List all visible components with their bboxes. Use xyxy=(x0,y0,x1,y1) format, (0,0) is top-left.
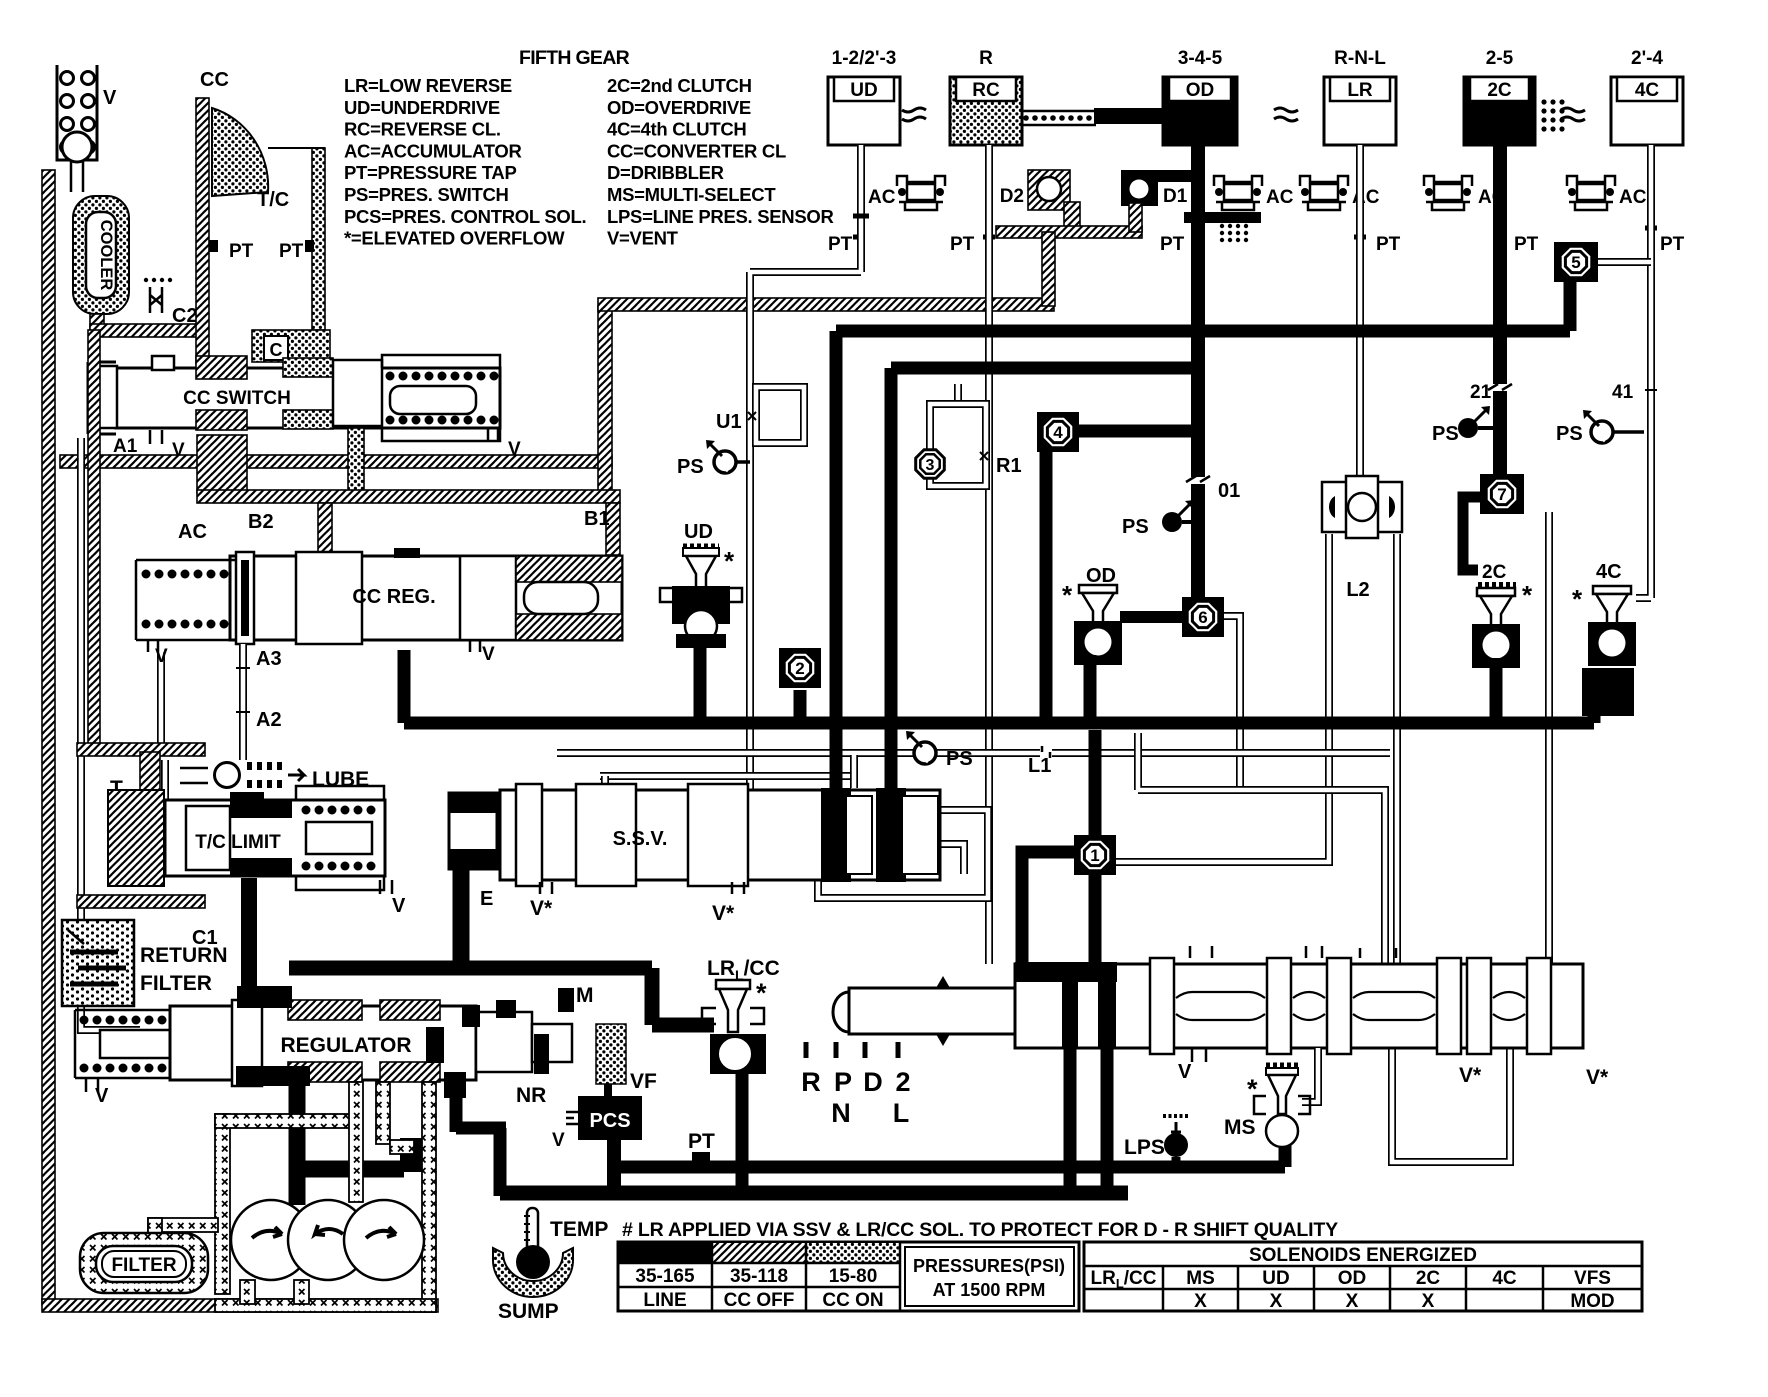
svg-text:CC=CONVERTER CL: CC=CONVERTER CL xyxy=(607,140,786,161)
dribbler D2 xyxy=(1028,170,1070,210)
VF stipple column xyxy=(596,1024,626,1084)
svg-text:2C=2nd CLUTCH: 2C=2nd CLUTCH xyxy=(607,75,752,96)
svg-text:V: V xyxy=(482,644,495,665)
svg-text:15-80: 15-80 xyxy=(829,1266,878,1287)
svg-text:R: R xyxy=(801,1067,821,1097)
sensor LPS xyxy=(1124,1116,1189,1167)
wire left A1 line xyxy=(81,438,140,1030)
svg-text:OD: OD xyxy=(1186,80,1215,101)
svg-text:*=ELEVATED OVERFLOW: *=ELEVATED OVERFLOW xyxy=(344,228,565,249)
svg-text:FILTER: FILTER xyxy=(111,1255,176,1276)
junction 2 xyxy=(779,648,821,688)
solenoids energized table xyxy=(1084,1242,1642,1312)
accumulator AC (OD) xyxy=(1214,176,1262,210)
svg-text:21: 21 xyxy=(1470,382,1492,403)
valve REGULATOR xyxy=(75,986,574,1098)
PT tap ticks xyxy=(853,228,1657,237)
regulator to pump black feed xyxy=(297,1080,404,1205)
pressure switch PS (U1) xyxy=(734,460,750,464)
wire E black xyxy=(453,860,470,966)
svg-text:X: X xyxy=(1194,1291,1207,1312)
relief tap into sump channel xyxy=(400,1138,426,1172)
svg-text:V: V xyxy=(103,87,117,109)
svg-text:4C=4th CLUTCH: 4C=4th CLUTCH xyxy=(607,119,746,140)
svg-text:6: 6 xyxy=(1198,608,1207,627)
filter badge xyxy=(80,1233,208,1293)
return filter xyxy=(62,920,134,1006)
svg-text:E: E xyxy=(480,888,493,910)
solenoid MS (multi-select) xyxy=(1224,1066,1310,1147)
wire manual valve lower-right loop xyxy=(1392,1048,1510,1162)
vent symbol top left xyxy=(57,65,97,192)
junction 3 and R1 tap xyxy=(954,384,962,404)
accumulator AC (2C) xyxy=(1424,176,1472,210)
svg-text:LRL/CC: LRL/CC xyxy=(1090,1268,1156,1291)
trunk T2 (main lower) xyxy=(404,650,1594,723)
pressure legend table xyxy=(618,1242,1079,1311)
trunk T1b xyxy=(891,368,1198,796)
wire junction6 output down xyxy=(1224,616,1240,790)
svg-text:U1: U1 xyxy=(716,411,742,433)
svg-text:4C: 4C xyxy=(1596,561,1622,583)
lever ticks R P D 2 N L xyxy=(806,1042,898,1058)
svg-text:MS=MULTI-SELECT: MS=MULTI-SELECT xyxy=(607,184,776,205)
solenoid PCS xyxy=(578,1096,642,1140)
accumulator AC (UD) xyxy=(897,176,945,210)
dribbler D1 xyxy=(1121,170,1194,182)
regulator NR black details xyxy=(426,1027,444,1063)
wire lower cross line to valve xyxy=(1138,733,1385,964)
sump pickup channels (x-hatch) xyxy=(215,1114,230,1294)
check valve LUBE xyxy=(180,762,369,791)
svg-text:CC REG.: CC REG. xyxy=(352,586,435,608)
svg-text:A2: A2 xyxy=(256,709,282,731)
svg-text:OD=OVERDRIVE: OD=OVERDRIVE xyxy=(607,97,751,118)
svg-text:AT 1500 RPM: AT 1500 RPM xyxy=(933,1280,1046,1300)
manual valve spool waists xyxy=(1176,992,1265,1020)
svg-text:*: * xyxy=(1247,1074,1258,1104)
wire 4C supply down (thin) xyxy=(1636,145,1651,598)
trunk T3 (regulator top) xyxy=(289,968,714,1025)
cooler xyxy=(73,196,129,314)
black feed line into OD box xyxy=(1094,108,1164,124)
svg-text:PT: PT xyxy=(1160,234,1185,255)
hatched drop from D2 xyxy=(1064,202,1080,230)
hatched bottom trunk xyxy=(42,1299,438,1312)
wire MS right port to valve xyxy=(1302,1048,1318,1102)
hatched left wall inner xyxy=(88,330,100,754)
manual valve bottom ports black to T5 xyxy=(1070,1048,1107,1193)
hatched B-path below CC SWITCH xyxy=(197,435,247,493)
svg-text:PT=PRESSURE TAP: PT=PRESSURE TAP xyxy=(344,162,517,183)
svg-text:V*: V* xyxy=(712,902,735,925)
svg-text:PS: PS xyxy=(1122,516,1149,538)
pressure switch PS on L1 xyxy=(906,731,936,764)
svg-text:T/C: T/C xyxy=(257,189,289,211)
svg-text:LINE: LINE xyxy=(643,1290,686,1311)
wire RC supply down (thin) xyxy=(985,145,993,964)
svg-text:5: 5 xyxy=(1571,253,1580,272)
junction 1 xyxy=(1089,730,1102,836)
hatched trunk H1 (to D2) xyxy=(598,298,1054,311)
svg-text:PT: PT xyxy=(950,234,975,255)
node C into CC switch (stippled port) xyxy=(252,330,330,362)
svg-text:OD: OD xyxy=(1338,1268,1367,1289)
svg-text:C: C xyxy=(270,340,283,360)
T loop (hatched) xyxy=(77,743,205,756)
trunk T1 (OD/2C upper) xyxy=(836,281,1570,796)
tap break 21 on 2C line xyxy=(1490,384,1510,391)
sump bowl xyxy=(493,1248,573,1297)
svg-text:CC OFF: CC OFF xyxy=(724,1290,795,1311)
svg-text:FILTER: FILTER xyxy=(140,972,212,995)
svg-text:PS: PS xyxy=(1556,423,1583,445)
svg-text:V*: V* xyxy=(1586,1066,1609,1089)
svg-text:V*: V* xyxy=(530,897,553,920)
svg-text:2: 2 xyxy=(895,1067,910,1097)
wire SSV pilot line B xyxy=(600,772,858,780)
svg-text:AC: AC xyxy=(1619,187,1647,208)
clutch box RC xyxy=(950,48,1022,145)
svg-text:PT: PT xyxy=(828,234,853,255)
hatched vertical V1 xyxy=(598,306,612,498)
svg-text:4: 4 xyxy=(1053,423,1063,442)
svg-text:*: * xyxy=(1062,580,1073,610)
wire L1 long thin line xyxy=(557,749,1390,757)
svg-text:1-2/2'-3: 1-2/2'-3 xyxy=(832,48,897,69)
svg-text:4C: 4C xyxy=(1635,80,1660,101)
svg-text:R: R xyxy=(979,48,993,69)
valve S.S.V. xyxy=(449,784,940,886)
hatched left wall outer xyxy=(42,170,55,1305)
wire L2 left line down to SSV area xyxy=(1106,534,1329,862)
svg-text:2'-4: 2'-4 xyxy=(1631,48,1663,69)
svg-text:PCS: PCS xyxy=(589,1110,630,1132)
junction 7 xyxy=(1480,474,1524,514)
T/C housing left wall (hatched) xyxy=(196,98,209,364)
svg-text:AC=ACCUMULATOR: AC=ACCUMULATOR xyxy=(344,140,522,161)
junction 4 xyxy=(1037,412,1079,452)
svg-text:L: L xyxy=(893,1098,910,1128)
hatched trunk H2 (A-line) xyxy=(60,455,612,468)
svg-text:D2: D2 xyxy=(1000,186,1024,207)
junction 6 xyxy=(1182,597,1224,637)
svg-text:N: N xyxy=(831,1098,851,1128)
clutch box OD xyxy=(1163,48,1237,145)
tap break 01 on OD line xyxy=(1189,477,1207,484)
vent connector right of UD box xyxy=(902,108,926,112)
wire SSV loops to manual valve xyxy=(818,810,988,898)
svg-text:D=DRIBBLER: D=DRIBBLER xyxy=(607,162,724,183)
hatched link D2 path to D1 xyxy=(996,226,1142,238)
svg-text:2: 2 xyxy=(795,659,804,678)
trunk T5 (bottom) xyxy=(500,1186,1128,1201)
svg-text:X: X xyxy=(1270,1291,1283,1312)
svg-text:01: 01 xyxy=(1218,480,1240,502)
svg-text:B1: B1 xyxy=(584,508,610,530)
svg-text:PT: PT xyxy=(279,241,304,262)
vent tick A1/V under CC SWITCH xyxy=(150,430,162,444)
svg-text:RC=REVERSE CL.: RC=REVERSE CL. xyxy=(344,119,501,140)
svg-text:PS: PS xyxy=(1432,423,1459,445)
svg-text:R1: R1 xyxy=(996,455,1022,477)
svg-text:FIFTH GEAR: FIFTH GEAR xyxy=(519,47,630,69)
svg-text:LR=LOW REVERSE: LR=LOW REVERSE xyxy=(344,75,512,96)
svg-text:*: * xyxy=(724,546,735,576)
svg-text:4C: 4C xyxy=(1492,1268,1517,1289)
manual valve top ports xyxy=(1190,946,1396,958)
valve L2 xyxy=(1322,476,1402,538)
wire UD sol stem xyxy=(694,646,707,723)
svg-text:L1: L1 xyxy=(1028,755,1051,777)
wire junction7 output down xyxy=(1545,512,1553,964)
svg-text:PRESSURES(PSI): PRESSURES(PSI) xyxy=(913,1256,1065,1276)
svg-text:D1: D1 xyxy=(1163,186,1188,207)
svg-text:# LR APPLIED VIA SSV & LR/CC S: # LR APPLIED VIA SSV & LR/CC SOL. TO PRO… xyxy=(622,1219,1338,1241)
svg-text:1: 1 xyxy=(1090,846,1099,865)
wire AC(OD) to OD supply xyxy=(1184,212,1261,223)
valve CC SWITCH xyxy=(88,355,500,441)
T/C stippled dome xyxy=(212,108,268,196)
trunk T4 (PCS line) xyxy=(613,1140,1285,1167)
svg-text:2C: 2C xyxy=(1482,562,1507,583)
junction 1 to valve black feed xyxy=(1022,852,1095,965)
svg-text:COOLER: COOLER xyxy=(97,220,115,291)
svg-text:MS: MS xyxy=(1224,1116,1256,1139)
svg-text:UD: UD xyxy=(684,521,713,543)
svg-text:V: V xyxy=(392,895,406,917)
svg-text:UD: UD xyxy=(1262,1268,1289,1289)
svg-text:3: 3 xyxy=(926,457,935,474)
valve CC REG xyxy=(136,548,622,644)
svg-text:OD: OD xyxy=(1086,565,1116,587)
accumulator AC (LR) xyxy=(1300,176,1348,210)
svg-text:PT: PT xyxy=(1514,234,1539,255)
svg-text:V=VENT: V=VENT xyxy=(607,228,679,249)
wire cooler bottom to T/C (hatched) xyxy=(90,314,104,330)
svg-text:3-4-5: 3-4-5 xyxy=(1178,48,1223,69)
svg-text:35-118: 35-118 xyxy=(730,1266,788,1287)
spray vent right of 2C box xyxy=(1541,99,1564,131)
svg-text:V: V xyxy=(1178,1061,1192,1083)
svg-text:M: M xyxy=(576,984,594,1007)
pump assembly (3 circles) xyxy=(231,1200,424,1280)
svg-text:7: 7 xyxy=(1497,485,1506,504)
svg-text:X: X xyxy=(1346,1291,1359,1312)
svg-text:VF: VF xyxy=(630,1070,657,1093)
svg-text:35-165: 35-165 xyxy=(635,1266,695,1287)
svg-text:RC: RC xyxy=(972,80,1000,101)
svg-text:2C: 2C xyxy=(1487,80,1512,101)
svg-text:X: X xyxy=(1422,1291,1435,1312)
svg-text:D: D xyxy=(863,1067,883,1097)
svg-text:LUBE: LUBE xyxy=(312,768,369,791)
svg-text:PT: PT xyxy=(1660,234,1685,255)
clutch box UD xyxy=(828,48,900,145)
svg-text:41: 41 xyxy=(1612,382,1634,403)
svg-text:LPS: LPS xyxy=(1124,1136,1165,1159)
vent connector left of LR box xyxy=(1274,108,1298,112)
svg-text:AC: AC xyxy=(868,187,896,208)
wire from A-line down to T loop xyxy=(157,652,165,743)
svg-text:A3: A3 xyxy=(256,648,282,670)
solenoid UD (LR/CC style) xyxy=(660,521,742,648)
svg-text:LPS=LINE PRES. SENSOR: LPS=LINE PRES. SENSOR xyxy=(607,206,834,227)
svg-text:NR: NR xyxy=(516,1084,546,1107)
pressure tap tick on UD line xyxy=(853,214,869,219)
svg-text:T/C LIMIT: T/C LIMIT xyxy=(195,832,281,853)
clutch box LR xyxy=(1324,48,1396,145)
wire 2C supply xyxy=(1493,145,1507,480)
svg-text:C2: C2 xyxy=(172,305,198,327)
svg-text:CC SWITCH: CC SWITCH xyxy=(183,388,291,409)
svg-text:2C: 2C xyxy=(1416,1268,1441,1289)
svg-text:CC ON: CC ON xyxy=(822,1290,883,1311)
wire T/C limit left feed xyxy=(161,760,169,820)
wire LR supply down (thin) xyxy=(1356,145,1364,482)
wire UD PT / U1 line xyxy=(750,145,861,800)
svg-text:*: * xyxy=(756,978,767,1008)
svg-text:2-5: 2-5 xyxy=(1486,48,1514,69)
accumulator AC (4C) xyxy=(1567,176,1615,210)
junction 5 xyxy=(1554,242,1598,282)
svg-text:PT: PT xyxy=(1376,234,1401,255)
svg-text:TEMP: TEMP xyxy=(550,1218,608,1241)
wire C1 black xyxy=(241,878,257,1008)
svg-text:B2: B2 xyxy=(248,511,274,533)
svg-text:PS: PS xyxy=(677,456,704,478)
svg-text:LR: LR xyxy=(1347,80,1373,101)
svg-text:L2: L2 xyxy=(1346,579,1369,601)
svg-text:P: P xyxy=(834,1067,852,1097)
wire junction5 to 4C line xyxy=(1597,258,1651,266)
svg-text:V: V xyxy=(552,1130,565,1151)
clutch box 2C xyxy=(1464,48,1535,145)
svg-text:PS: PS xyxy=(946,748,973,770)
svg-text:REGULATOR: REGULATOR xyxy=(280,1034,411,1057)
solenoid LRL/CC xyxy=(702,957,780,1074)
svg-text:AC: AC xyxy=(178,521,207,543)
svg-text:PT: PT xyxy=(688,1130,715,1153)
svg-text:*: * xyxy=(1572,584,1583,614)
svg-text:S.S.V.: S.S.V. xyxy=(613,828,668,850)
manual valve xyxy=(833,958,1583,1054)
svg-text:PT: PT xyxy=(229,241,254,262)
T/C housing right wall (stippled) xyxy=(312,148,325,330)
svg-text:VFS: VFS xyxy=(1574,1268,1611,1289)
valve T/C LIMIT xyxy=(108,786,385,890)
thermometer TEMP xyxy=(493,1208,608,1323)
svg-text:R-N-L: R-N-L xyxy=(1334,48,1386,69)
svg-text:UD: UD xyxy=(850,80,877,101)
wire A3/A2 xyxy=(239,644,247,760)
svg-text:CC: CC xyxy=(200,69,229,91)
wire OD supply xyxy=(1191,145,1205,600)
dribbler C2 xyxy=(144,278,172,313)
svg-text:UD=UNDERDRIVE: UD=UNDERDRIVE xyxy=(344,97,500,118)
svg-text:RETURN: RETURN xyxy=(140,944,228,967)
vent connector left of 4C box xyxy=(1561,108,1585,112)
svg-text:AC: AC xyxy=(1266,187,1294,208)
svg-text:SOLENOIDS ENERGIZED: SOLENOIDS ENERGIZED xyxy=(1249,1245,1477,1266)
svg-text:PS=PRES. SWITCH: PS=PRES. SWITCH xyxy=(344,184,509,205)
dotted dribble line RC to OD xyxy=(1022,111,1096,125)
clutch box 4C xyxy=(1611,48,1683,145)
svg-text:*: * xyxy=(1522,580,1533,610)
node U1 loop xyxy=(756,387,804,443)
svg-text:MOD: MOD xyxy=(1570,1291,1614,1312)
2C check valve loop xyxy=(1463,497,1483,570)
svg-text:V*: V* xyxy=(1459,1064,1482,1087)
svg-text:MS: MS xyxy=(1186,1268,1215,1289)
svg-text:SUMP: SUMP xyxy=(498,1300,559,1323)
svg-text:PCS=PRES. CONTROL SOL.: PCS=PRES. CONTROL SOL. xyxy=(344,206,586,227)
svg-text:A1: A1 xyxy=(113,436,138,457)
